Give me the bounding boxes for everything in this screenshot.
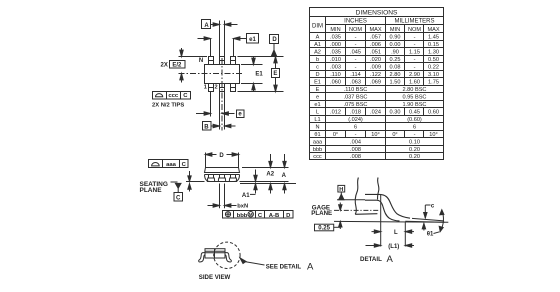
svg-text:L: L (394, 230, 398, 236)
svg-text:-: - (355, 42, 357, 48)
svg-text:10°: 10° (371, 132, 379, 138)
svg-text:SIDE VIEW: SIDE VIEW (199, 274, 231, 281)
svg-text:MIN: MIN (330, 27, 340, 33)
svg-text:(L1): (L1) (388, 244, 399, 250)
svg-text:0.20: 0.20 (409, 154, 420, 160)
svg-text:.018: .018 (350, 110, 361, 116)
svg-text:INCHES: INCHES (344, 19, 367, 25)
left A1 gap arrows (188, 171, 191, 192)
svg-text:.110: .110 (330, 72, 340, 78)
svg-text:-: - (414, 42, 416, 48)
svg-text:1.45: 1.45 (428, 35, 439, 41)
svg-text:A: A (204, 23, 209, 29)
svg-text:.122: .122 (370, 72, 381, 78)
svg-text:0.00: 0.00 (390, 42, 401, 48)
svg-text:-: - (414, 65, 416, 71)
svg-text:0.20: 0.20 (409, 147, 420, 153)
svg-text:0°: 0° (392, 132, 397, 138)
svg-text:0.30: 0.30 (390, 110, 401, 116)
svg-text:.90: .90 (391, 50, 399, 56)
svg-text:0.15: 0.15 (428, 42, 439, 48)
svg-text:MILLIMETERS: MILLIMETERS (394, 19, 434, 25)
svg-text:0.95 BSC: 0.95 BSC (403, 95, 427, 101)
svg-text:.012: .012 (330, 110, 341, 116)
detail A: body break lines (355, 178, 379, 215)
dimension bxN (208, 184, 237, 209)
svg-text:PLANE: PLANE (311, 210, 332, 217)
svg-text:A-B: A-B (269, 213, 279, 219)
svg-text:0.08: 0.08 (390, 65, 401, 71)
datum H callout (337, 185, 365, 199)
front view leg 1 (207, 175, 214, 182)
svg-text:.004: .004 (350, 140, 361, 146)
svg-text:-: - (414, 132, 416, 138)
svg-text:D: D (286, 213, 290, 219)
svg-text:2.80: 2.80 (390, 72, 401, 78)
svg-text:ccc: ccc (168, 93, 179, 99)
svg-text:0.10: 0.10 (409, 140, 420, 146)
svg-text:C: C (182, 162, 187, 168)
svg-text:.063: .063 (350, 80, 361, 86)
dimension L (372, 195, 415, 247)
svg-text:-: - (355, 132, 357, 138)
svg-text:E: E (273, 71, 277, 77)
svg-text:2.90: 2.90 (409, 72, 420, 78)
svg-text:1.75: 1.75 (428, 80, 439, 86)
svg-text:e: e (316, 95, 319, 101)
svg-text:PLANE: PLANE (140, 187, 163, 194)
svg-text:NOM: NOM (408, 27, 421, 33)
svg-text:1.15: 1.15 (409, 50, 420, 56)
svg-text:1.60: 1.60 (409, 80, 420, 86)
svg-text:C: C (258, 213, 263, 219)
svg-text:1.90 BSC: 1.90 BSC (403, 102, 427, 108)
svg-text:A: A (282, 173, 287, 179)
svg-text:0.45: 0.45 (409, 110, 420, 116)
svg-text:.008: .008 (350, 147, 361, 153)
dimension E1 (241, 57, 263, 92)
svg-text:.037 BSC: .037 BSC (344, 95, 368, 101)
svg-text:1.50: 1.50 (390, 80, 401, 86)
datum A callout (202, 20, 238, 29)
detail A: seating plane line (334, 220, 448, 223)
dimension 2X E/2 (170, 48, 208, 83)
datum B callout (203, 122, 236, 131)
detail A: foot thin lines to theta vertex (412, 218, 444, 221)
svg-text:1.30: 1.30 (428, 50, 439, 56)
svg-text:N: N (315, 125, 319, 131)
bbb feature control frame (223, 211, 294, 219)
svg-text:6: 6 (413, 125, 416, 131)
svg-text:.057: .057 (370, 35, 381, 41)
svg-text:DETAIL: DETAIL (360, 256, 382, 263)
detail A: lead (365, 194, 410, 221)
seating plane lines (186, 181, 205, 183)
datum D callout (270, 35, 279, 57)
svg-text:.020: .020 (370, 57, 381, 63)
vertical centerline (221, 58, 223, 131)
svg-text:(.024): (.024) (348, 117, 363, 123)
svg-text:.009: .009 (370, 65, 381, 71)
svg-text:(0.60): (0.60) (407, 117, 422, 123)
svg-text:bbb: bbb (313, 147, 322, 153)
svg-text:0.50: 0.50 (428, 57, 439, 63)
svg-text:.069: .069 (370, 80, 381, 86)
dimension A2 arrows (269, 154, 272, 194)
svg-text:DIM: DIM (312, 23, 323, 29)
svg-text:.110 BSC: .110 BSC (344, 87, 368, 93)
pin 3 (bottom-right) (231, 84, 236, 92)
svg-text:10°: 10° (429, 132, 437, 138)
svg-text:.060: .060 (330, 80, 341, 86)
pin 1 (bottom-left) (209, 84, 214, 92)
svg-text:.035: .035 (330, 50, 341, 56)
svg-text:3.10: 3.10 (428, 72, 439, 78)
svg-text:0.60: 0.60 (428, 110, 439, 116)
svg-text:MAX: MAX (427, 27, 439, 33)
front view leg 2 (218, 175, 225, 182)
svg-text:C: C (183, 93, 188, 99)
svg-text:A: A (316, 35, 320, 41)
dimension A1 arrows (250, 170, 257, 195)
svg-text:C: C (176, 195, 181, 201)
dimension A2 / A extension line (242, 167, 289, 169)
svg-text:θ1: θ1 (314, 132, 320, 138)
svg-text:2X: 2X (161, 62, 168, 68)
front view leg 3 (229, 175, 236, 182)
aaa feature control frame (149, 160, 189, 168)
svg-text:.024: .024 (370, 110, 381, 116)
svg-text:θ1: θ1 (427, 231, 434, 237)
svg-text:.045: .045 (350, 50, 361, 56)
svg-text:2: 2 (214, 84, 217, 90)
svg-text:SEE DETAIL: SEE DETAIL (266, 263, 302, 270)
svg-text:MIN: MIN (390, 27, 400, 33)
svg-text:c: c (316, 65, 319, 71)
svg-text:.114: .114 (350, 72, 360, 78)
svg-text:.051: .051 (370, 50, 381, 56)
svg-text:A: A (307, 262, 314, 273)
pin2 edge extension lines (bottom) (219, 92, 221, 130)
svg-text:H: H (339, 187, 343, 193)
dimensions table (310, 8, 444, 160)
svg-text:.000: .000 (330, 42, 341, 48)
svg-text:N: N (199, 58, 203, 64)
svg-text:aaa: aaa (166, 162, 177, 168)
svg-text:2X N/2 TIPS: 2X N/2 TIPS (152, 102, 184, 108)
dimension theta1 arc (434, 210, 444, 234)
top view package body (205, 65, 240, 84)
front view: dimension D (206, 153, 239, 168)
dimension A arrows (283, 154, 286, 194)
dimension E (238, 57, 284, 92)
dimension (L1) (366, 244, 415, 247)
svg-text:.035: .035 (330, 35, 341, 41)
svg-text:L: L (316, 110, 319, 116)
pin 2 (bottom-middle) (220, 84, 225, 92)
svg-text:E: E (316, 87, 320, 93)
pin 5 (top-middle) (220, 57, 225, 65)
svg-text:0.90: 0.90 (390, 35, 401, 41)
detail circle (214, 242, 240, 268)
svg-text:-: - (414, 35, 416, 41)
svg-text:bxN: bxN (237, 204, 248, 210)
svg-text:-: - (355, 65, 357, 71)
dimension e1 (198, 34, 259, 57)
svg-text:D: D (272, 37, 277, 43)
labels: top view texts (140, 23, 435, 281)
svg-text:M: M (249, 212, 253, 217)
svg-text:E/2: E/2 (172, 62, 182, 68)
see detail leader (240, 258, 265, 265)
pin 4 (top-right) (231, 57, 236, 65)
front view package body (205, 168, 240, 182)
svg-text:0.22: 0.22 (428, 65, 439, 71)
svg-text:D: D (315, 72, 319, 78)
svg-text:B: B (204, 125, 209, 131)
svg-text:0.25: 0.25 (318, 226, 330, 232)
svg-text:DIMENSIONS: DIMENSIONS (356, 9, 398, 16)
svg-text:L1: L1 (314, 117, 320, 123)
svg-text:0°: 0° (333, 132, 338, 138)
svg-text:2.80 BSC: 2.80 BSC (403, 87, 427, 93)
svg-text:E1: E1 (255, 71, 263, 77)
dimension e (196, 92, 244, 118)
pin 6 (top-left) (209, 57, 214, 65)
side view right lead (225, 253, 231, 262)
svg-text:ccc: ccc (313, 154, 322, 160)
ccc feature control frame (153, 92, 191, 100)
side view left lead (199, 253, 205, 262)
svg-text:6: 6 (354, 125, 357, 131)
pin5 edge extension lines (top) (219, 21, 221, 57)
svg-text:e1: e1 (314, 102, 320, 108)
dimension 0.25 (315, 203, 343, 231)
svg-text:NOM: NOM (349, 27, 362, 33)
svg-text:A1: A1 (314, 42, 321, 48)
svg-text:-: - (355, 35, 357, 41)
svg-text:0.25: 0.25 (390, 57, 401, 63)
side view body (205, 249, 225, 258)
svg-text:.006: .006 (370, 42, 381, 48)
svg-text:A2: A2 (266, 172, 274, 178)
horizontal centerline (179, 73, 244, 75)
datum C callout (seating plane) (171, 182, 183, 201)
svg-text:-: - (355, 57, 357, 63)
svg-text:A: A (387, 254, 394, 265)
dimension c (422, 205, 430, 231)
svg-text:.010: .010 (330, 57, 341, 63)
svg-text:-: - (414, 57, 416, 63)
svg-text:bbb: bbb (237, 213, 248, 219)
svg-text:E1: E1 (314, 80, 321, 86)
svg-text:A1: A1 (242, 193, 250, 199)
svg-text:D: D (219, 153, 224, 159)
gage plane dash line (334, 209, 380, 211)
svg-text:e1: e1 (249, 37, 256, 43)
svg-text:b: b (316, 57, 319, 63)
svg-text:.008: .008 (350, 154, 361, 160)
svg-text:MAX: MAX (369, 27, 381, 33)
svg-text:aaa: aaa (313, 140, 323, 146)
svg-text:.003: .003 (330, 65, 341, 71)
svg-text:1: 1 (204, 84, 207, 90)
svg-text:.075 BSC: .075 BSC (344, 102, 368, 108)
svg-text:A2: A2 (314, 50, 321, 56)
